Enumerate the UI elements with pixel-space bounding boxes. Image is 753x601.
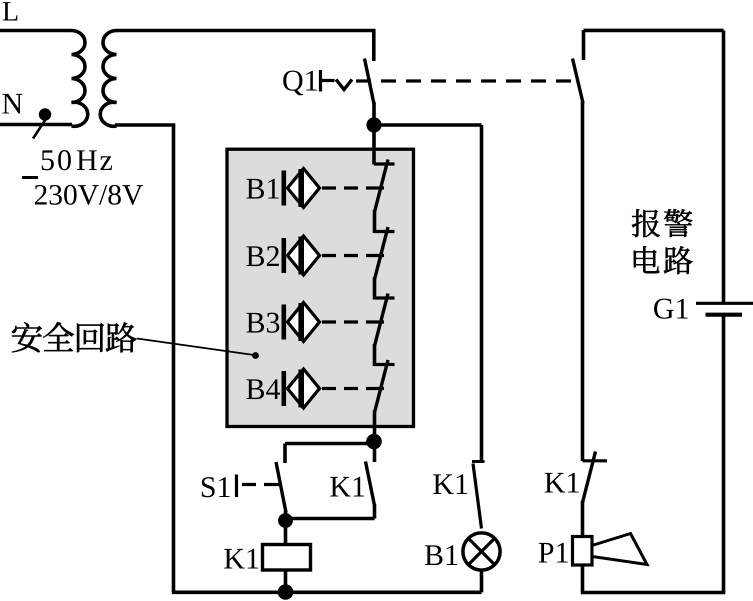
approx tilde mark	[22, 176, 38, 179]
wire	[172, 590, 482, 594]
contact B4 blade	[375, 360, 389, 413]
contact B4 tick	[374, 363, 395, 366]
lamp B1 label	[425, 545, 457, 565]
breaker Q1 label	[283, 71, 317, 96]
wire	[722, 316, 726, 593]
sensor B4 diamond	[288, 369, 320, 408]
terminal label L	[3, 2, 18, 20]
mechanical linkage dashed line	[356, 79, 580, 82]
sensor B2 terminal bar	[281, 238, 286, 273]
battery G1 label	[654, 299, 688, 319]
sensor B3 diamond	[288, 303, 320, 342]
transformer T1 primary winding	[72, 31, 88, 127]
sensor B1 dashed link	[322, 186, 384, 189]
relay coil K1	[263, 545, 311, 571]
buzzer P1 label	[539, 543, 568, 563]
junction node B	[366, 434, 382, 450]
breaker Q1 second pole blade	[573, 59, 584, 104]
wire	[284, 521, 288, 546]
buzzer P1 horn	[592, 534, 647, 565]
contact B1 tick	[374, 162, 395, 165]
wire	[581, 101, 585, 461]
sensor B4 dashed link	[322, 387, 384, 390]
breaker Q1 trip arrow	[336, 80, 352, 90]
switch stroke on N wire	[33, 118, 47, 139]
sensor B2 center bar	[298, 237, 304, 275]
relay contact K1b blade	[473, 464, 482, 529]
sensor B3 dashed link	[322, 320, 384, 323]
contact B2 tick	[374, 230, 395, 233]
wire	[582, 30, 586, 60]
contact B3 tick	[374, 296, 395, 299]
sensor B4 center bar	[298, 370, 304, 408]
wire	[116, 29, 376, 33]
wire	[285, 442, 374, 446]
label 230V/8V	[35, 185, 143, 205]
wire	[581, 591, 726, 595]
relay contact K1c blade	[583, 452, 596, 503]
wire	[115, 123, 175, 127]
sensor B1 label	[246, 179, 278, 199]
wire	[372, 124, 376, 165]
sensor B2 label	[246, 246, 278, 266]
wire	[722, 30, 726, 303]
label 报警 (alarm)	[632, 209, 660, 237]
breaker Q1 main contact blade	[365, 59, 375, 105]
sensor B1 center bar	[298, 169, 304, 207]
lamp B1 cross	[468, 538, 494, 564]
wire	[373, 411, 377, 442]
sensor B4 terminal bar	[281, 371, 286, 406]
junction node A	[366, 117, 381, 132]
label 电路 (circuit)	[634, 246, 660, 273]
junction node C	[278, 513, 293, 528]
wire	[581, 565, 585, 593]
wire	[480, 125, 484, 463]
wire	[283, 444, 287, 464]
relay contact K1b tick	[472, 460, 485, 463]
wire	[374, 123, 482, 127]
wire	[373, 441, 377, 462]
wire	[373, 344, 377, 366]
buzzer P1 box	[573, 537, 593, 566]
junction node D	[278, 584, 294, 600]
wire	[286, 517, 375, 521]
battery G1 long plate	[696, 302, 753, 305]
sensor B2 diamond	[288, 236, 320, 275]
wire	[284, 511, 288, 521]
relay contact K1c tick	[583, 459, 608, 462]
wire	[480, 570, 484, 592]
wire	[172, 124, 176, 592]
sensor B4 label	[246, 379, 280, 399]
sensor B1 terminal bar	[281, 171, 286, 206]
leader line	[137, 339, 254, 356]
contact B1 blade	[375, 160, 389, 213]
safety loop box	[227, 149, 414, 426]
leader dot	[252, 352, 259, 359]
S1 dashed actuator link	[242, 483, 279, 486]
contact B3 blade	[375, 294, 389, 347]
sensor B1 diamond	[288, 169, 320, 208]
sensor B3 center bar	[298, 303, 304, 341]
sensor B2 dashed link	[322, 254, 384, 257]
sensor B3 label	[246, 313, 279, 333]
transformer T1 secondary winding	[100, 31, 116, 127]
wire	[372, 29, 376, 61]
relay contact K1a label	[330, 477, 364, 497]
wire	[373, 504, 377, 519]
pushbutton S1 label	[202, 477, 230, 497]
pushbutton S1 blade	[276, 462, 286, 513]
label 安全回路 (safety loop)	[12, 322, 42, 352]
relay contact K1a blade	[366, 462, 375, 506]
wire	[0, 29, 72, 33]
terminal label N	[2, 94, 22, 114]
relay contact K1c label	[545, 473, 579, 493]
sensor B3 terminal bar	[281, 305, 286, 340]
wire	[373, 210, 377, 233]
wire	[0, 123, 72, 127]
relay coil K1 label	[224, 549, 258, 569]
S1 actuator bar	[235, 475, 238, 498]
label 50Hz	[42, 150, 54, 170]
battery G1 short plate	[706, 313, 743, 317]
lamp B1	[463, 533, 500, 570]
junction dot on N wire	[39, 108, 51, 120]
relay contact K1b label	[433, 474, 467, 494]
wire	[372, 102, 376, 126]
wire	[581, 501, 585, 537]
wire	[284, 570, 288, 593]
contact B2 blade	[375, 227, 389, 280]
wire	[373, 278, 377, 300]
breaker Q1 actuator T-bar	[321, 70, 335, 92]
wire	[584, 29, 724, 33]
